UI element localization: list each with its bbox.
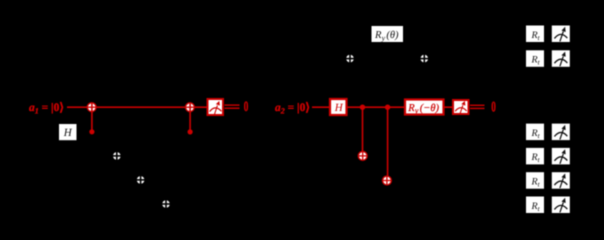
control dot 2 xyxy=(188,129,193,134)
gate H (red) xyxy=(330,99,347,115)
wire vertical control 4 xyxy=(387,107,389,176)
gate Rt row5 xyxy=(526,148,544,165)
wire vertical control 2 xyxy=(189,103,191,132)
cnot target (white, top row q1 left) xyxy=(346,54,355,63)
cnot target (white, top row q1 right) xyxy=(420,54,429,63)
wire vertical control 1 xyxy=(91,103,93,132)
meter row1 xyxy=(552,50,570,67)
cnot target X4 (red, q6) xyxy=(382,176,391,185)
gate Rt row6 xyxy=(526,172,544,189)
cnot target (white) q6-q7 xyxy=(136,175,145,184)
control dot 1 xyxy=(89,129,94,134)
svg-text:H: H xyxy=(334,102,344,114)
wire a2 seg 3 xyxy=(444,106,452,108)
svg-text:y: y xyxy=(381,34,386,43)
cnot target (white) q5-q6 xyxy=(112,151,121,160)
control dot 3 xyxy=(360,105,365,110)
wire a2 seg 1 xyxy=(312,106,330,108)
cnot target X1 on a1 xyxy=(87,103,96,112)
gate H (white) xyxy=(59,124,77,140)
meter row5 xyxy=(552,148,570,165)
svg-text:0: 0 xyxy=(244,99,249,115)
measurement M1 (red) xyxy=(208,99,224,115)
meter row0 xyxy=(552,26,570,43)
wire a2 seg 2 xyxy=(348,106,405,108)
svg-text:(θ): (θ) xyxy=(386,30,399,41)
gate Rt row1 xyxy=(526,50,544,67)
gate Rt row0 xyxy=(526,26,544,43)
cnot target (white) q7-q8 xyxy=(162,200,171,209)
svg-text:(−θ): (−θ) xyxy=(420,103,440,114)
classical double wire 2 xyxy=(470,105,485,106)
svg-text:a1 = |0⟩: a1 = |0⟩ xyxy=(29,102,64,116)
wire a1 xyxy=(67,106,207,108)
classical double wire 1 xyxy=(225,104,240,105)
control dot 4 xyxy=(385,105,390,110)
svg-text:a2 = |0⟩: a2 = |0⟩ xyxy=(275,102,310,116)
svg-text:0: 0 xyxy=(491,100,496,116)
svg-text:y: y xyxy=(414,106,419,115)
measurement M2 (red) xyxy=(453,100,469,114)
meter row6 xyxy=(552,172,570,189)
gate Rt row4 xyxy=(526,124,544,141)
meter row7 xyxy=(552,197,570,214)
meter row4 xyxy=(552,124,570,141)
gate Ry(-theta) (red) xyxy=(405,100,444,116)
gate Ry(theta) (white, top) xyxy=(372,26,404,43)
svg-text:H: H xyxy=(63,127,73,139)
wire vertical control 3 xyxy=(362,107,364,151)
cnot target X2 on a1 xyxy=(185,103,194,112)
cnot target X3 (red, q5) xyxy=(358,151,367,160)
gate Rt row7 xyxy=(526,197,544,214)
